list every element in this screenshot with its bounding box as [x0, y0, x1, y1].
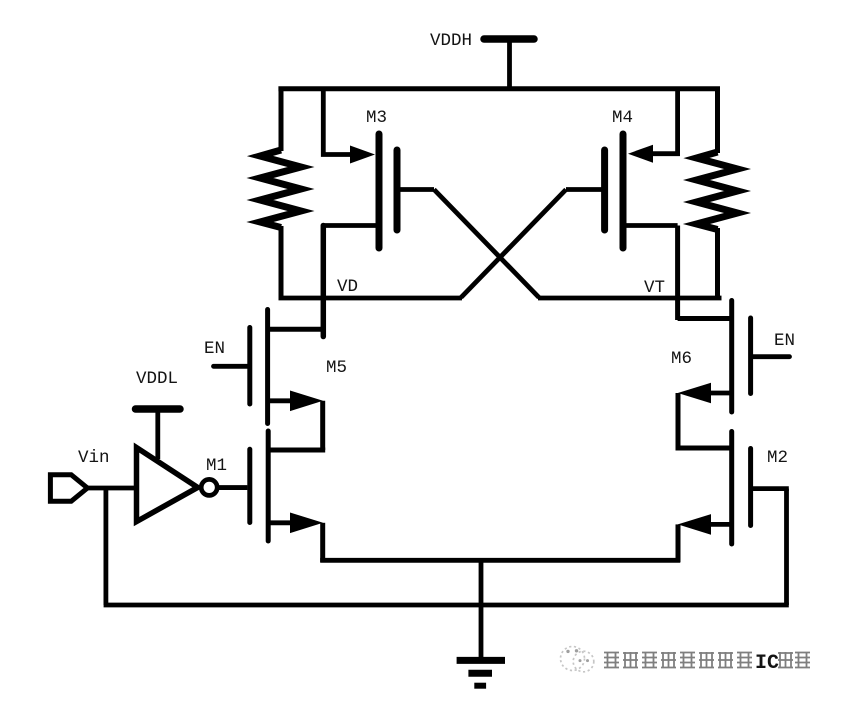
svg-text:EN: EN [774, 331, 795, 351]
wire cross-couple M4 gate to VD [461, 190, 566, 298]
transistor M2 gate bar [748, 449, 753, 526]
transistor M6 gate wire EN [753, 354, 790, 359]
wire M2 source to tail [676, 524, 681, 562]
transistor M1 gate wire from inverter [217, 485, 247, 490]
transistor M6 source wire [709, 391, 730, 396]
ground bar 2 [468, 670, 492, 677]
svg-text:M2: M2 [767, 448, 788, 468]
transistor M5 source arrow [290, 391, 323, 412]
svg-text:M1: M1 [206, 456, 227, 476]
transistor M6 source arrow [678, 383, 711, 404]
node VD wire [279, 296, 463, 301]
svg-text:M3: M3 [366, 108, 387, 128]
transistor M6 channel bar [729, 301, 734, 413]
VDDL supply bar [136, 405, 181, 413]
watermark text 阿拉灯神丁的模拟IC之路 (approximated glyph blocks) [604, 652, 810, 675]
wire Vin feedback bottom run [104, 603, 789, 608]
svg-text:VDDH: VDDH [430, 31, 472, 51]
wire feedback up to M2 gate [784, 489, 789, 605]
transistor M5 source wire [269, 398, 293, 403]
wire ground stem [479, 558, 484, 658]
transistor M1 drain wire [269, 448, 325, 453]
watermark logo (two dotted faces) [561, 647, 594, 672]
resistor R-right top lead [715, 87, 720, 154]
wire Vin to inverter [87, 486, 136, 491]
resistor R-left top lead [279, 87, 284, 152]
wire Vin feedback down [104, 488, 109, 605]
transistor M4 gate bar [601, 150, 608, 230]
transistor M5 drain wire [269, 327, 324, 332]
transistor M1 source wire [269, 520, 293, 525]
wire top VDDH rail [278, 86, 720, 91]
transistor M4 source feed wire [651, 91, 678, 154]
svg-text:EN: EN [204, 339, 225, 359]
wire VDDH stem [507, 41, 512, 91]
inverter U1 triangle [137, 448, 198, 522]
VDDH supply bar [484, 35, 534, 43]
wire inverter output to M1 gate [217, 485, 248, 490]
transistor M3 gate stub [399, 187, 434, 192]
resistor R-left bottom lead [279, 226, 284, 298]
transistor M2 source wire [709, 522, 730, 527]
wire M3 drain to VD / M5 drain connector [321, 226, 327, 337]
resistor R-left zigzag [260, 150, 301, 228]
ground bar 1 [457, 657, 505, 664]
port Vin connector [50, 475, 87, 502]
transistor M6 gate bar [748, 318, 753, 394]
svg-text:M4: M4 [612, 108, 633, 128]
svg-text:M5: M5 [326, 358, 347, 378]
transistor M5 channel bar [265, 310, 270, 424]
wire M6 source to M2 drain [676, 393, 681, 448]
transistor M3 source arrow [350, 146, 375, 164]
wire M5 source to M1 drain [320, 401, 325, 450]
transistor M5 gate bar [247, 328, 252, 405]
resistor R-right zigzag [697, 152, 738, 230]
svg-text:Vin: Vin [78, 448, 110, 468]
transistor M4 gate stub [566, 187, 603, 192]
transistor M3 channel bar [376, 134, 383, 248]
transistor M2 channel bar [729, 432, 734, 545]
ground bar 3 [474, 683, 486, 689]
wire tail rail [320, 558, 680, 563]
wire M4 drain to VT / M6 drain connector [675, 226, 680, 321]
transistor M4 drain wire [625, 223, 678, 228]
wire cross-couple M3 gate to VT [434, 190, 539, 298]
wire VDDL stem [155, 411, 160, 459]
svg-text:VT: VT [644, 278, 665, 298]
transistor M1 channel bar [266, 431, 271, 541]
transistor M6 drain wire [678, 316, 730, 321]
resistor R-right bottom lead [715, 228, 720, 298]
transistor M1 gate bar [247, 449, 252, 522]
svg-text:VDDL: VDDL [136, 369, 178, 389]
svg-text:IC: IC [755, 652, 779, 675]
svg-text:VD: VD [337, 277, 358, 297]
transistor M2 source arrow [678, 514, 711, 535]
transistor M3 source feed wire [323, 91, 352, 155]
node VT wire [538, 296, 722, 301]
transistor M4 channel bar [620, 134, 627, 248]
transistor M2 drain wire [676, 446, 730, 451]
transistor M5 gate wire EN [214, 364, 248, 369]
transistor M3 gate bar [394, 150, 401, 230]
transistor M3 drain wire [324, 223, 376, 228]
transistor M4 source arrow [628, 145, 653, 163]
transistor M1 source arrow [290, 513, 323, 534]
svg-text:M6: M6 [671, 349, 692, 369]
wire M1 source to tail [320, 523, 325, 562]
inverter U1 bubble [201, 479, 217, 495]
transistor M2 gate wire [753, 486, 789, 491]
